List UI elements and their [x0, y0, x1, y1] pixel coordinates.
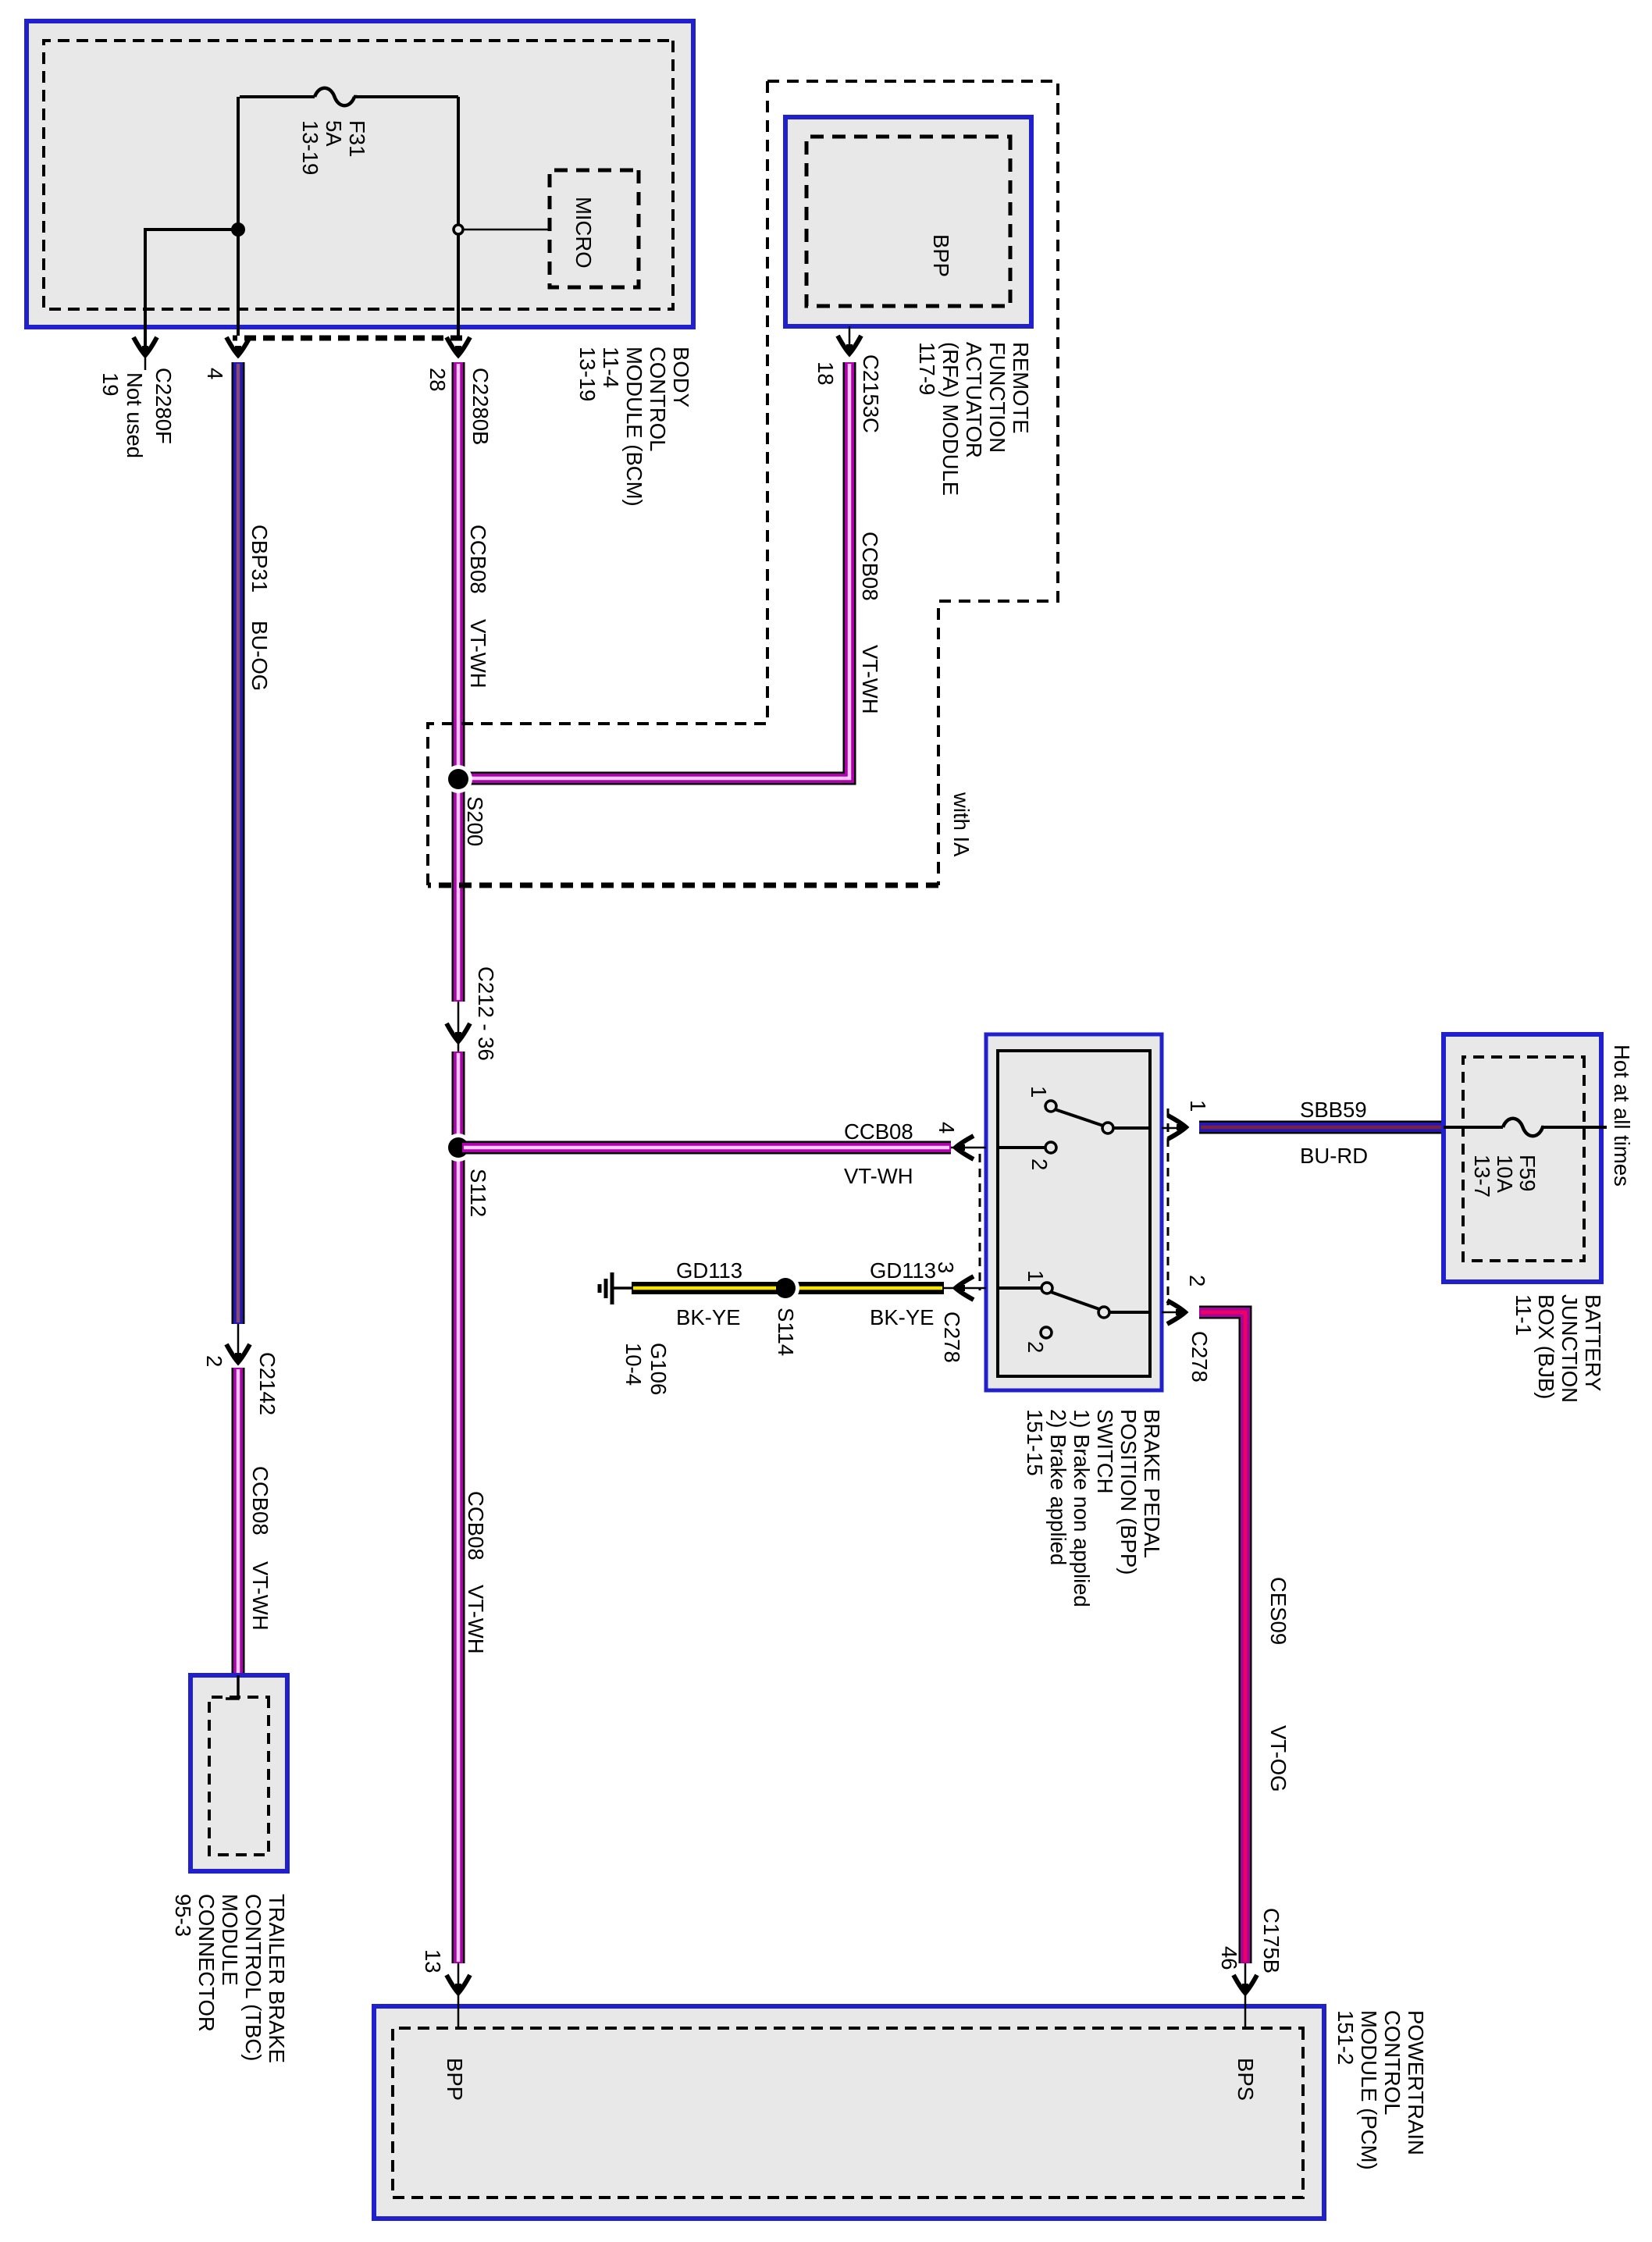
svg-text:10A: 10A [1493, 1155, 1517, 1194]
label POWERTRAIN CONTROL MODULE (PCM) 151-2 [1333, 2010, 1428, 2170]
svg-text:BOX (BJB): BOX (BJB) [1534, 1294, 1558, 1399]
svg-text:POWERTRAIN: POWERTRAIN [1404, 2010, 1428, 2155]
node: open circle junction to MICRO [454, 225, 463, 234]
svg-text:5A: 5A [322, 120, 346, 147]
svg-text:SWITCH: SWITCH [1093, 1409, 1117, 1493]
svg-text:BU-RD: BU-RD [1300, 1144, 1368, 1168]
svg-text:CBP31: CBP31 [247, 525, 272, 593]
module box: POWERTRAIN CONTROL MODULE (PCM) [374, 2006, 1324, 2219]
svg-text:13-19: 13-19 [575, 347, 600, 401]
svg-text:10-4: 10-4 [621, 1343, 646, 1386]
svg-text:28: 28 [425, 368, 450, 392]
svg-text:VT-WH: VT-WH [858, 645, 882, 714]
svg-text:11-4: 11-4 [599, 347, 623, 388]
svg-text:BATTERY: BATTERY [1581, 1294, 1605, 1391]
svg-text:Not used: Not used [123, 372, 147, 458]
PCM pin 46 lead [1244, 1963, 1247, 2028]
upper switch: common contact [1102, 1123, 1113, 1133]
svg-text:117-9: 117-9 [915, 342, 939, 395]
svg-text:13-7: 13-7 [1470, 1155, 1494, 1198]
connector C212-36 link and arrow [458, 1002, 460, 1052]
svg-text:MODULE (BCM): MODULE (BCM) [622, 347, 646, 507]
svg-text:13-19: 13-19 [298, 120, 322, 175]
svg-text:BODY: BODY [669, 347, 693, 407]
svg-text:2: 2 [1024, 1341, 1048, 1353]
svg-text:2) Brake applied: 2) Brake applied [1046, 1409, 1070, 1565]
svg-text:2: 2 [1185, 1275, 1209, 1286]
module box: BRAKE PEDAL POSITION (BPP) SWITCH [986, 1034, 1162, 1390]
wire CES09 VT-OG (switch pin 2 to PCM pin 46) [1199, 1312, 1245, 1963]
svg-text:TRAILER BRAKE: TRAILER BRAKE [265, 1894, 289, 2063]
switch pin 2 lead [1162, 1311, 1183, 1314]
svg-text:BPS: BPS [1234, 2058, 1258, 2101]
connector arrow switch pin 2 C278 [1167, 1301, 1185, 1324]
connector C2142: thin link and arrow [237, 1324, 240, 1365]
svg-text:G106: G106 [646, 1343, 671, 1395]
svg-text:POSITION (BPP): POSITION (BPP) [1116, 1409, 1141, 1575]
svg-text:18: 18 [814, 361, 838, 386]
BPP switch inner outline [998, 1051, 1150, 1376]
connector arrow BCM pin 28 C2280B [447, 337, 470, 355]
label BODY CONTROL MODULE (BCM) 11-4 13-19 [575, 347, 693, 507]
fuse F31 (vertical link inside BCM) [240, 88, 458, 106]
wire: BCM internal feed fuse to pin 28 [457, 97, 460, 336]
RFA inner dashed outline [806, 137, 1010, 306]
svg-text:CONNECTOR: CONNECTOR [194, 1894, 219, 2032]
MICRO dashed box [550, 170, 639, 287]
svg-text:151-2: 151-2 [1333, 2010, 1358, 2065]
svg-text:SBB59: SBB59 [1300, 1098, 1367, 1122]
junction S114 [771, 1274, 799, 1302]
module box: BODY CONTROL MODULE (BCM) [27, 21, 693, 327]
lower switch: contact 1 [1041, 1283, 1052, 1294]
svg-text:(RFA) MODULE: (RFA) MODULE [938, 342, 963, 496]
svg-text:FUNCTION: FUNCTION [985, 342, 1009, 453]
wire: switch pin 4 internal [999, 1146, 1045, 1149]
label F59 10A 13-7 [1470, 1155, 1540, 1198]
svg-text:BK-YE: BK-YE [870, 1305, 935, 1329]
label G106 10-4 [621, 1343, 671, 1395]
connector C2280 dashed line at BCM pins [233, 336, 462, 341]
svg-text:46: 46 [1217, 1946, 1241, 1970]
wire: switch pin 1 internal [1113, 1126, 1148, 1130]
svg-text:CONTROL: CONTROL [646, 347, 670, 451]
svg-text:S114: S114 [774, 1308, 798, 1356]
wire CCB08 VT-WH (C2142 to TBC) [232, 1368, 245, 1675]
module box: BATTERY JUNCTION BOX (BJB) [1444, 1034, 1601, 1282]
PCM pin 13 lead [458, 1963, 460, 2028]
svg-text:GD113: GD113 [870, 1258, 936, 1283]
label REMOTE FUNCTION ACTUATOR (RFA) MODULE 117-9 [915, 342, 1033, 496]
svg-text:F31: F31 [345, 120, 369, 157]
svg-text:19: 19 [98, 372, 123, 397]
svg-text:3: 3 [934, 1262, 958, 1273]
RFA outer dashed boundary with IA region [767, 81, 1058, 885]
svg-text:REMOTE: REMOTE [1009, 342, 1033, 434]
svg-text:2: 2 [202, 1355, 226, 1367]
svg-text:C2280B: C2280B [468, 368, 493, 445]
wire: MICRO lead [461, 229, 550, 231]
svg-text:BRAKE PEDAL: BRAKE PEDAL [1140, 1409, 1164, 1558]
svg-text:CCB08: CCB08 [464, 1491, 488, 1561]
svg-text:C2153C: C2153C [859, 354, 883, 433]
svg-text:MODULE (PCM): MODULE (PCM) [1357, 2010, 1381, 2170]
svg-text:1: 1 [1027, 1086, 1051, 1098]
wire SBB59 BU-RD (BJB to switch pin 1) [1199, 1121, 1444, 1134]
connector arrow switch pin 3 C278 [956, 1276, 974, 1300]
wire GD113 BK-YE (S114 to ground G106) [632, 1282, 778, 1294]
wire CCB08 VT-WH main run (BCM pin 28 to C212) [452, 362, 465, 1002]
BCM inner dashed outline [44, 41, 673, 309]
svg-text:BPP: BPP [443, 2058, 467, 2101]
label BATTERY JUNCTION BOX (BJB) 11-1 [1511, 1294, 1605, 1403]
svg-text:13: 13 [421, 1949, 445, 1973]
upper switch: contact 2 [1045, 1142, 1056, 1153]
svg-text:C2142: C2142 [255, 1352, 279, 1415]
connector arrow switch pin 4 [956, 1136, 974, 1159]
svg-text:1: 1 [1186, 1100, 1210, 1112]
svg-text:VT-WH: VT-WH [844, 1164, 913, 1188]
svg-text:C278: C278 [1187, 1331, 1212, 1383]
wire: switch pin 2 internal [1109, 1311, 1148, 1314]
wire: switch pin 3 internal [999, 1286, 1041, 1290]
wire CCB08 VT-WH main run (C212 to PCM pin 13) [452, 1052, 465, 1963]
wire: BCM internal feed fuse to pin 4 [237, 97, 240, 336]
svg-text:CCB08: CCB08 [466, 525, 490, 594]
svg-text:MODULE: MODULE [218, 1894, 242, 1986]
svg-text:MICRO: MICRO [571, 197, 596, 269]
svg-text:VT-WH: VT-WH [248, 1561, 272, 1631]
wire GD113 BK-YE (switch pin 3 to S114) [792, 1282, 944, 1294]
label TRAILER BRAKE CONTROL (TBC) MODULE CONNECTOR 95-3 [171, 1894, 289, 2063]
lower switch blade [1051, 1292, 1099, 1309]
svg-text:4: 4 [203, 368, 227, 379]
switch pin 1 lead [1162, 1127, 1184, 1130]
svg-text:CES09: CES09 [1266, 1577, 1291, 1645]
svg-text:C278: C278 [940, 1311, 964, 1363]
svg-text:VT-WH: VT-WH [466, 619, 490, 689]
TBC inner dashed outline [209, 1697, 269, 1855]
wire CCB08 VT-WH (RFA pin 18 drop to S200) [462, 362, 849, 778]
BJB inner dashed outline [1463, 1057, 1584, 1261]
svg-text:GD113: GD113 [676, 1258, 742, 1283]
wire CBP31 BU-OG (BCM pin 4 to C2142) [232, 362, 245, 1324]
svg-text:S112: S112 [466, 1169, 490, 1217]
svg-text:C175B: C175B [1259, 1908, 1284, 1973]
junction node in BCM on pin-4 feed [231, 222, 245, 237]
TBC internal lead with tick [226, 1675, 238, 1699]
RFA pin lead [849, 326, 851, 353]
upper switch blade [1055, 1109, 1103, 1126]
wire CCB08 VT-WH (switch pin 4 to S112) [462, 1141, 951, 1155]
PCM inner dashed outline [393, 2028, 1303, 2198]
svg-text:CCB08: CCB08 [844, 1119, 913, 1144]
svg-text:CCB08: CCB08 [858, 532, 882, 601]
connector arrow PCM pin 13 [447, 1975, 470, 1993]
svg-text:Hot at all times: Hot at all times [1610, 1044, 1634, 1187]
svg-text:C212 - 36: C212 - 36 [474, 966, 498, 1061]
connector C278 dashed line (top pins) [1167, 1109, 1170, 1305]
svg-text:11-1: 11-1 [1511, 1294, 1536, 1336]
svg-text:F59: F59 [1515, 1155, 1540, 1191]
svg-text:2: 2 [1027, 1158, 1052, 1170]
wire: BCM branch to Not used pin 19 [145, 230, 238, 348]
svg-text:ACTUATOR: ACTUATOR [962, 342, 986, 458]
lower switch: common contact [1098, 1307, 1109, 1318]
junction S112 [444, 1133, 472, 1162]
svg-text:BK-YE: BK-YE [676, 1305, 741, 1329]
svg-text:BPP: BPP [929, 234, 953, 277]
connector arrow BCM pin 4 [226, 337, 250, 355]
svg-text:with IA: with IA [949, 792, 974, 857]
label F31 5A 13-19 [298, 120, 369, 175]
svg-text:VT-OG: VT-OG [1266, 1725, 1291, 1792]
svg-text:1) Brake non applied: 1) Brake non applied [1070, 1409, 1094, 1607]
upper switch: contact 1 [1045, 1101, 1056, 1112]
lower switch: contact 2 [1041, 1327, 1052, 1338]
fuse F59 (vertical link inside BJB) [1444, 1119, 1607, 1137]
label BRAKE PEDAL POSITION (BPP) SWITCH notes [1023, 1409, 1164, 1607]
connector arrow PCM pin 46 C175B [1234, 1975, 1257, 1993]
svg-text:S200: S200 [463, 796, 487, 846]
switch pin 3 lead [942, 1287, 986, 1290]
module box: TRAILER BRAKE CONTROL (TBC) MODULE CONNECTOR [190, 1675, 287, 1871]
svg-text:4: 4 [935, 1122, 959, 1133]
svg-text:BU-OG: BU-OG [247, 621, 272, 691]
connector arrow switch pin 1 [1168, 1116, 1186, 1139]
junction S200 [444, 765, 472, 793]
ground G106 symbol [600, 1272, 632, 1304]
svg-text:1: 1 [1024, 1270, 1048, 1282]
stub after pin 19 arrow [144, 353, 147, 370]
connector arrow C2153C pin 18 [838, 336, 861, 354]
svg-text:C2280F: C2280F [151, 368, 176, 444]
module box: REMOTE FUNCTION ACTUATOR (RFA) MODULE [785, 117, 1031, 326]
switch pin 4 lead [949, 1147, 986, 1149]
svg-text:JUNCTION: JUNCTION [1558, 1294, 1582, 1403]
connector C278 dashed line (bottom pins) [979, 1154, 981, 1290]
svg-text:CCB08: CCB08 [248, 1466, 272, 1536]
svg-text:95-3: 95-3 [171, 1894, 195, 1937]
svg-text:VT-WH: VT-WH [464, 1585, 488, 1654]
svg-text:CONTROL (TBC): CONTROL (TBC) [241, 1894, 265, 2061]
svg-text:CONTROL: CONTROL [1380, 2010, 1405, 2115]
connector arrow C2280F pin 19 [134, 337, 157, 355]
svg-text:151-15: 151-15 [1023, 1409, 1047, 1476]
